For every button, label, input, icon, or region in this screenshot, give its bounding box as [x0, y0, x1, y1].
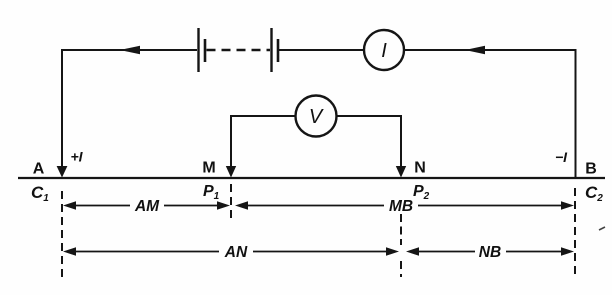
svg-text:I: I — [381, 40, 387, 62]
current direction arrow (left-pointing) on top-left wire — [120, 46, 140, 55]
svg-text:M: M — [202, 160, 215, 177]
electrode arrow at node N — [396, 166, 406, 178]
ammeter A1 circle — [364, 30, 404, 70]
ground surface line — [18, 177, 605, 179]
stray scan mark near right edge — [599, 227, 605, 230]
dimension AM right arrowhead — [217, 201, 230, 210]
dimension MB left arrowhead — [235, 201, 248, 210]
dimension line AN — [72, 251, 390, 253]
wire dashed segment between battery cells — [207, 49, 271, 51]
dimension line NB — [415, 251, 565, 253]
svg-text:A: A — [33, 161, 45, 178]
dimension AN right arrowhead — [386, 247, 399, 256]
svg-text:MB: MB — [389, 198, 413, 215]
current direction arrow (left-pointing) on top-right wire — [465, 46, 485, 55]
dimension AN left arrowhead — [63, 247, 76, 256]
svg-text:+I: +I — [70, 149, 83, 165]
electrode arrow at node A (+I into surface) — [57, 166, 68, 178]
wire top-left segment from node A up and across to battery — [62, 50, 197, 170]
wire from ammeter to top-right corner and down to node B — [404, 50, 576, 178]
svg-text:−I: −I — [555, 149, 568, 165]
node M extension dashed line — [230, 184, 232, 222]
wire from voltmeter right terminal down to node N — [337, 116, 402, 170]
wire from voltmeter left terminal down to node M — [231, 116, 296, 170]
svg-text:AN: AN — [224, 244, 248, 261]
node B extension dashed line — [574, 188, 576, 277]
node N extension dashed line (lower part) — [400, 261, 402, 277]
svg-text:B: B — [585, 161, 597, 178]
voltmeter V1 circle — [296, 96, 337, 137]
battery B1 cell 1 short plate (-) — [204, 39, 207, 62]
node A extension dashed line — [61, 191, 63, 277]
node N extension dashed line — [400, 214, 402, 245]
battery B1 cell 2 short plate (-) — [277, 39, 280, 62]
electrode arrow at node M — [226, 166, 236, 178]
dimension line MB — [245, 205, 565, 207]
dimension NB left arrowhead — [406, 247, 419, 256]
battery B1 cell 1 long plate (+) — [197, 28, 199, 72]
svg-text:AM: AM — [134, 198, 160, 215]
svg-text:V: V — [309, 106, 324, 128]
battery B1 cell 2 long plate (+) — [270, 28, 272, 72]
dimension line AM — [72, 205, 220, 207]
dimension MB right arrowhead — [561, 201, 574, 210]
dimension NB right arrowhead — [561, 247, 574, 256]
svg-text:N: N — [414, 160, 426, 177]
dimension AM left arrowhead — [63, 201, 76, 210]
svg-text:NB: NB — [479, 244, 501, 261]
wire from battery to ammeter — [279, 49, 364, 51]
